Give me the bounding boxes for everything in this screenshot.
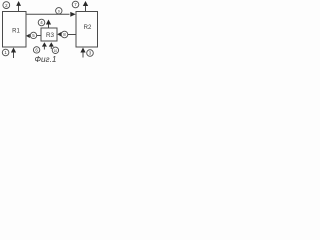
block R2 <box>76 12 98 48</box>
arrow up above R3 <box>46 20 51 25</box>
arrow left into R1 right (R3 to R1) <box>26 34 30 38</box>
node circle 7 top left <box>3 2 10 9</box>
wire: stub below R2 <box>82 53 84 58</box>
svg-text:R3: R3 <box>46 32 55 39</box>
arrow up above R1 <box>16 1 21 6</box>
node circle 10 below R3 right <box>52 47 58 53</box>
node circle 3 below R2 <box>87 50 94 57</box>
node circle 4 above R3 <box>38 19 45 26</box>
svg-text:10: 10 <box>54 49 58 53</box>
block R1 <box>3 12 27 48</box>
svg-text:R2: R2 <box>84 25 92 31</box>
node circle 5 on R3-R1 line <box>30 32 36 38</box>
svg-text:R1: R1 <box>12 29 20 35</box>
svg-text:Фиг.1: Фиг.1 <box>35 55 57 64</box>
wire: stub above R3 <box>48 24 50 28</box>
arrow right into R2 left (R1 to R2) <box>70 12 75 17</box>
arrow up into R3 bottom right <box>49 42 54 46</box>
wire: stub below R3 right <box>50 47 52 49</box>
block R3 <box>41 28 57 41</box>
wire: R3 to circle 5 <box>37 35 41 37</box>
arrow up into R1 bottom <box>11 48 16 53</box>
wire: stub below R3 left <box>43 47 45 50</box>
node circle 1 below R1 <box>2 49 9 56</box>
wire: R2 to R3 line <box>68 34 76 36</box>
arrow up into R3 bottom left <box>42 42 47 46</box>
wire: stub above R1 <box>18 6 20 12</box>
svg-text:9: 9 <box>58 9 60 13</box>
wire: R1 to R2 line <box>26 13 70 15</box>
node circle 6 below R3 left <box>33 47 39 53</box>
node circle 2 top right <box>72 1 79 8</box>
arrow left into R3 right (R2 to R3) <box>57 32 61 37</box>
node circle 8 on R2-R3 line <box>61 31 68 38</box>
arrow up above R2 <box>83 1 88 6</box>
node circle 9 on R1-R2 line <box>56 8 62 14</box>
wire: stub below R1 <box>13 53 15 59</box>
arrow up into R2 bottom <box>80 48 85 53</box>
wire: stub above R2 <box>85 6 87 12</box>
